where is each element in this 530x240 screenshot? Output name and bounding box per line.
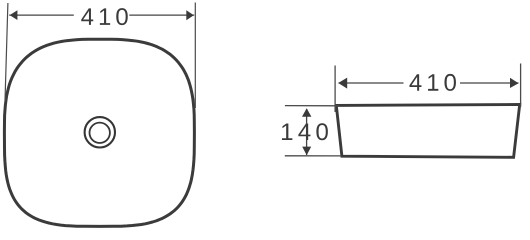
- extension line right (side view 410): [520, 64, 522, 108]
- dimension line 410 (side view), right segment: [460, 82, 519, 84]
- dimension line 140 (vertical): [306, 109, 308, 155]
- extension line bottom (side view 140): [285, 155, 341, 157]
- dimension text 410 (side view): [409, 74, 456, 91]
- left extension line (top view, left): [5, 3, 8, 101]
- arrowhead left (top view): [10, 10, 18, 20]
- arrowhead down (side view 140): [302, 147, 311, 156]
- arrowhead right (side view 410): [510, 78, 519, 88]
- extension line top (side view 140): [285, 105, 340, 107]
- right extension line (top view, right): [194, 3, 196, 109]
- dimension text 140: [282, 123, 328, 140]
- arrowhead left (side view 410): [338, 78, 347, 89]
- basin top-view outline: [4, 39, 194, 226]
- arrowhead up (side view 140): [302, 108, 311, 117]
- dimension line 410 (top view), right segment: [129, 14, 194, 16]
- dimension text 410 (top view): [81, 8, 128, 25]
- arrowhead right (top view): [186, 10, 194, 20]
- drain inner circle: [90, 123, 110, 143]
- dimension line 410 (side view), left segment: [339, 82, 404, 84]
- drain outer circle: [85, 117, 115, 147]
- side view trapezoid: [336, 105, 519, 158]
- dimension line 410 (top view), left segment: [9, 14, 74, 16]
- extension line left (side view 410): [334, 66, 336, 113]
